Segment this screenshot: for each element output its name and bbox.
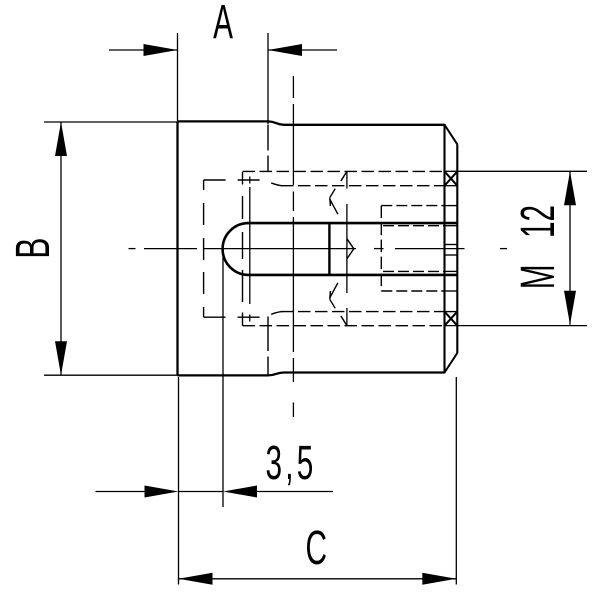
svg-text:12: 12	[512, 205, 565, 238]
svg-text:B: B	[5, 238, 59, 259]
svg-text:C: C	[305, 522, 326, 575]
svg-text:A: A	[213, 0, 233, 49]
svg-text:M: M	[512, 264, 565, 289]
svg-text:3,5: 3,5	[265, 437, 316, 490]
